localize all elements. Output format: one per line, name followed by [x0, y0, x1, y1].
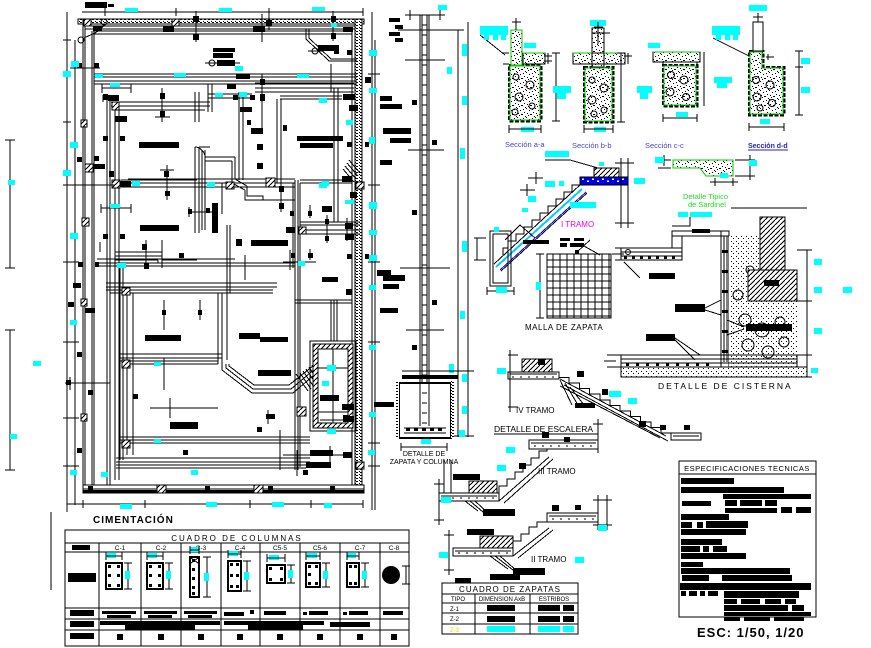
svg-text:TIPO: TIPO	[451, 597, 465, 603]
svg-text:C-4: C-4	[235, 545, 246, 552]
svg-text:CUADRO DE ZAPATAS: CUADRO DE ZAPATAS	[459, 585, 561, 594]
svg-text:C-8: C-8	[389, 545, 400, 552]
svg-text:ESPECIFICACIONES TECNICAS: ESPECIFICACIONES TECNICAS	[684, 464, 810, 473]
svg-text:II TRAMO: II TRAMO	[531, 555, 566, 564]
svg-text:Sección d-d: Sección d-d	[748, 143, 788, 150]
svg-text:CIMENTACIÓN: CIMENTACIÓN	[93, 513, 174, 526]
svg-text:III TRAMO: III TRAMO	[538, 467, 576, 476]
svg-text:Z-3: Z-3	[450, 628, 460, 634]
svg-text:ZAPATA Y COLUMNA: ZAPATA Y COLUMNA	[390, 459, 459, 466]
svg-text:DIMENSION AxB: DIMENSION AxB	[479, 597, 525, 603]
svg-text:C-2: C-2	[156, 545, 167, 552]
svg-text:de Sardinel: de Sardinel	[688, 200, 726, 209]
svg-text:IV TRAMO: IV TRAMO	[516, 406, 555, 415]
svg-text:ESC: 1/50, 1/20: ESC: 1/50, 1/20	[697, 625, 805, 640]
svg-text:MALLA DE ZAPATA: MALLA DE ZAPATA	[525, 323, 603, 332]
svg-text:Sección b-b: Sección b-b	[572, 141, 612, 150]
svg-text:DETALLE DE CISTERNA: DETALLE DE CISTERNA	[658, 381, 793, 391]
svg-text:Sección a-a: Sección a-a	[505, 140, 545, 149]
svg-text:Z-1: Z-1	[450, 607, 460, 613]
svg-text:DETALLE DE: DETALLE DE	[403, 451, 446, 458]
svg-text:I TRAMO: I TRAMO	[561, 220, 594, 229]
svg-text:Sección c-c: Sección c-c	[645, 141, 684, 150]
svg-text:C-7: C-7	[355, 545, 366, 552]
svg-text:C-1: C-1	[115, 545, 126, 552]
svg-text:ESTRIBOS: ESTRIBOS	[539, 597, 569, 603]
svg-text:C5-6: C5-6	[313, 545, 327, 552]
svg-text:CUADRO DE COLUMNAS: CUADRO DE COLUMNAS	[171, 534, 303, 543]
svg-text:C5-5: C5-5	[273, 545, 287, 552]
svg-text:Z-2: Z-2	[450, 617, 460, 623]
